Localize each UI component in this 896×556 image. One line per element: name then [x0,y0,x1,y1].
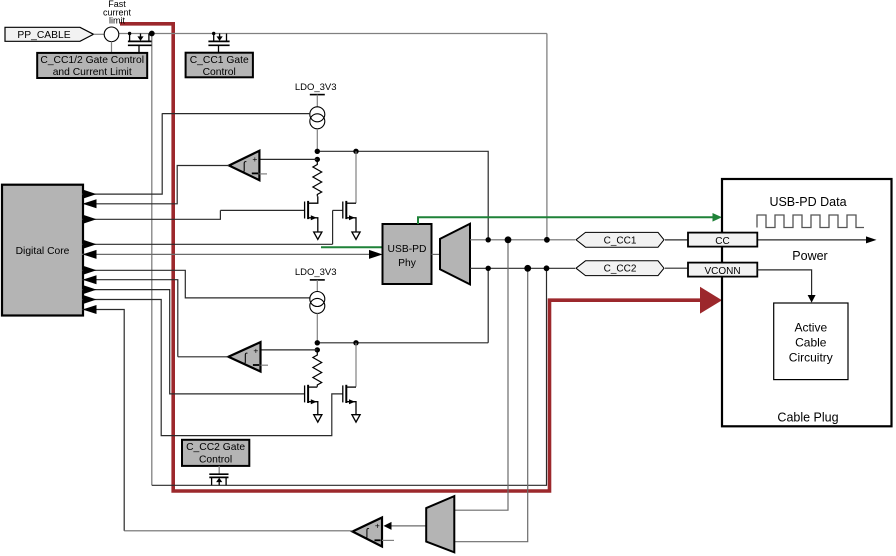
wire U3 output to core (via x124) [124,530,352,532]
ground (Q4) [352,232,360,239]
op-amp U1 comparator [229,151,259,181]
svg-text:USB-PD: USB-PD [388,244,427,255]
svg-text:C_CC1 Gate: C_CC1 Gate [190,55,249,66]
svg-text:∫: ∫ [243,351,248,365]
wire main CC wire y=33.5 [119,33,547,35]
svg-text:Power: Power [792,249,827,263]
wire core-phy bidirectional bus y254 [82,253,374,255]
current source I1 [310,107,325,122]
svg-text:VCONN: VCONN [704,266,740,277]
svg-text:Cable: Cable [795,336,827,350]
node junction dots top rail [315,149,320,154]
resistor R2 [313,353,322,387]
wire mux2 to U3 + input [391,525,426,527]
svg-text:+: + [253,345,258,355]
svg-text:LDO_3V3: LDO_3V3 [295,82,337,93]
svg-text:Control: Control [199,454,232,465]
svg-text:CC: CC [715,236,729,247]
current limiter circle (Fast current limit) [104,27,119,42]
transistor Q4 (right NMOS, top pair) [333,201,356,244]
svg-text:∫: ∫ [242,159,247,173]
wire rail drop to Q4 drain [355,151,357,203]
svg-text:USB-PD Data: USB-PD Data [769,195,846,209]
wire vertical x=152 from top node down [151,34,153,486]
svg-text:Digital Core: Digital Core [16,246,70,257]
node C_CC1 net tag [576,232,664,247]
wire core pin y219 to Q3 gate [82,210,220,219]
wire C_CC2 line y268 [470,267,575,269]
mux U5 (CC switch) [440,224,470,285]
ground (Q3) [314,232,322,239]
wire comparator U2 + input [261,349,318,351]
wire core pin y279.5 input from U2 [82,280,178,357]
svg-text:PP_CABLE: PP_CABLE [17,30,70,41]
svg-text:limit: limit [109,16,125,26]
ground (Q6) [352,415,360,422]
wire CC line with power arrow [757,239,868,241]
wire core pin y309.5 input from U3 [82,310,124,531]
C_CC1 Gate Control box [186,53,253,78]
wire VCONN to active cable circuitry [757,270,811,296]
node dots on C_CC2 line [486,266,491,271]
Digital Core box [2,185,83,316]
wire red highlighted VCONN path [120,24,703,491]
wire current source to node [316,129,318,152]
svg-text:C_CC1/2 Gate Control: C_CC1/2 Gate Control [40,55,144,66]
wire bottom rail to C_CC2 at x488 [487,268,489,343]
USB-PD data square wave [757,215,864,228]
svg-text:and Current Limit: and Current Limit [53,67,132,78]
node dots on C_CC1 line [486,237,491,242]
Cable Plug box [722,179,892,426]
op-amp U2 comparator [228,342,260,371]
Active Cable Circuitry box [774,303,848,380]
resistor R1 [313,162,322,197]
node C_CC2 net tag [576,261,664,276]
mux U6 (bottom) [426,496,454,552]
wire x528 C_CC2 to bottom mux [454,268,527,541]
node CC pin box [688,233,757,247]
op-amp U3 comparator (bottom) [353,518,383,547]
svg-text:+: + [375,520,380,530]
wire core pin y194 to current source I1 [82,113,162,194]
transistor Q7 pass FET (C_CC2) [209,466,228,485]
wire C_CC1 line y240 [470,239,575,241]
node PP_CABLE tag [5,27,94,41]
svg-text:Active: Active [794,321,827,335]
svg-text:LDO_3V3: LDO_3V3 [295,267,337,278]
wire core pin y204 input from U1 [83,199,97,208]
wire core pin y244 to Q4 gate [82,243,333,245]
svg-text:C_CC2: C_CC2 [604,264,637,275]
transistor Q2 pass FET (C_CC1) [208,32,229,53]
wire bottom horizontal y=485 to VCONN branch [152,268,547,485]
wire x508 C_CC1 to bottom mux [454,240,508,510]
wire bottom rail to C_CC2 line [317,342,488,344]
transistor Q6 (right NMOS, bottom pair) [343,385,356,414]
wire phy to mux [432,253,441,255]
wire current limiter to control box [111,41,113,53]
transistor Q3 (left NMOS, top pair) [220,196,317,231]
wire core pin y270 to current source I2 [82,270,310,298]
wire U2 output to core [178,356,229,358]
transistor Q1 pass FET (C_CC1/2) [128,31,155,53]
wire comparator U1 + input [259,158,317,160]
wire core pin y299.5 to Q6 gate [82,300,343,436]
wire rail drop to Q6 drain [355,343,357,387]
wire current source control from pin [162,113,310,115]
svg-text:Control: Control [203,67,236,78]
USB-PD Phy box U4 [383,224,432,284]
wire vertical x=547 top to C_CC1 node [546,34,548,240]
C_CC1/2 Gate Control and Current Limit box [37,53,147,78]
C_CC2 Gate Control box [182,440,249,466]
current source I2 [310,292,325,307]
wire core pin y289.5 to Q5 gate [82,290,305,394]
wire top rail to C_CC1 line [317,151,488,240]
wire green CC data path into phy [321,246,383,248]
transistor Q5 (left NMOS, bottom pair) [305,385,318,414]
svg-text:Cable Plug: Cable Plug [777,411,838,425]
svg-text:+: + [252,154,257,164]
node junction dots bottom rail [315,340,320,345]
svg-text:Circuitry: Circuitry [789,351,833,365]
ground (Q5) [314,415,322,422]
wire current source to node [316,313,318,342]
svg-text:Phy: Phy [398,258,417,269]
node VCONN pin box [688,263,757,277]
wire green phy to cable plug [418,217,715,224]
wire U1 output to Digital Core [82,166,229,204]
svg-text:C_CC1: C_CC1 [604,235,637,246]
red arrowhead into cable plug [700,287,722,314]
svg-text:C_CC2 Gate: C_CC2 Gate [186,442,245,453]
wire PP_CABLE to current limiter [94,33,105,35]
